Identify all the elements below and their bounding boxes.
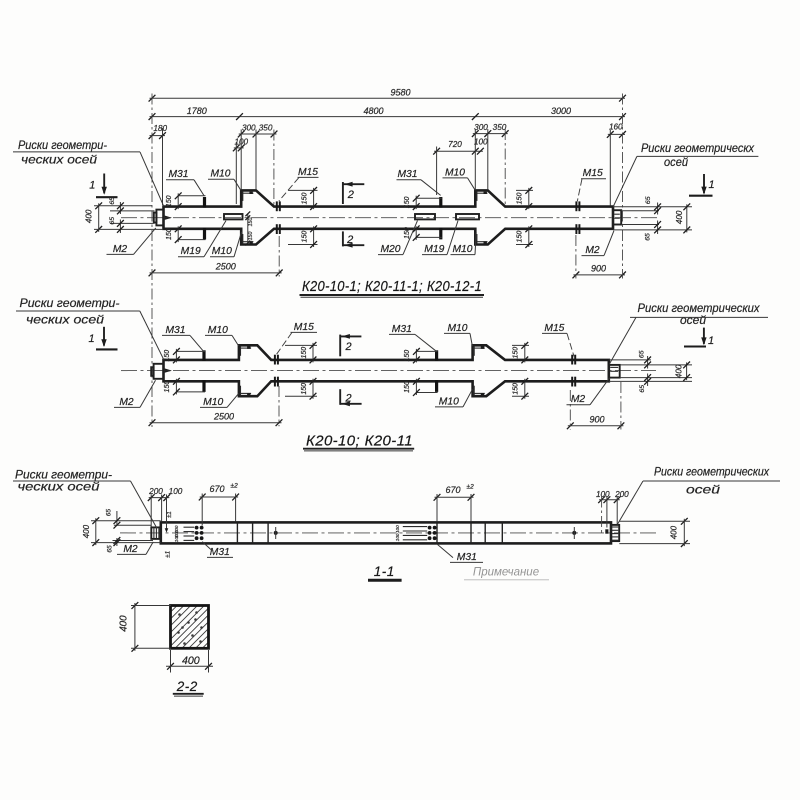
svg-text:2500: 2500 (213, 412, 234, 422)
svg-text:150: 150 (166, 228, 173, 240)
svg-text:Риски геометри-: Риски геометри- (18, 139, 107, 152)
svg-text:65: 65 (109, 197, 116, 205)
svg-text:±1: ±1 (165, 550, 172, 558)
svg-text:М10: М10 (208, 325, 228, 336)
svg-text:150: 150 (404, 381, 411, 393)
svg-text:65: 65 (645, 233, 652, 241)
svg-text:150: 150 (301, 193, 308, 205)
svg-text:осей: осей (680, 314, 707, 327)
svg-text:1: 1 (708, 179, 714, 191)
svg-text:М15: М15 (583, 168, 603, 179)
svg-text:300: 300 (474, 123, 488, 132)
svg-text:М20: М20 (380, 244, 400, 255)
svg-text:400: 400 (119, 615, 130, 632)
svg-text:150: 150 (164, 381, 171, 393)
svg-text:1780: 1780 (187, 106, 207, 116)
svg-text:ческих осей: ческих осей (21, 154, 98, 167)
svg-text:670: 670 (445, 485, 460, 495)
svg-text:2500: 2500 (215, 262, 236, 272)
svg-text:150: 150 (404, 196, 411, 208)
svg-text:100: 100 (596, 490, 610, 499)
svg-text:150: 150 (248, 218, 254, 227)
svg-text:1: 1 (708, 335, 714, 347)
svg-text:М31: М31 (210, 547, 230, 558)
svg-text:150: 150 (301, 231, 308, 243)
svg-text:М31: М31 (168, 169, 188, 180)
svg-text:300: 300 (242, 124, 256, 133)
svg-text:М2: М2 (585, 245, 600, 256)
svg-text:400: 400 (670, 525, 679, 539)
svg-text:М15: М15 (294, 322, 314, 333)
svg-text:2: 2 (345, 393, 352, 405)
svg-text:100: 100 (474, 138, 488, 147)
svg-text:100: 100 (169, 487, 183, 496)
svg-text:осей: осей (686, 484, 721, 497)
svg-text:400: 400 (182, 655, 200, 667)
svg-text:150: 150 (513, 383, 520, 395)
svg-text:150: 150 (301, 383, 308, 395)
svg-text:160: 160 (609, 123, 623, 132)
svg-text:Риски геометрических: Риски геометрических (654, 465, 770, 478)
svg-text:2-2: 2-2 (176, 679, 198, 694)
svg-text:3000: 3000 (551, 106, 571, 116)
svg-text:4800: 4800 (363, 106, 383, 116)
svg-text:М19: М19 (424, 244, 444, 255)
svg-text:2: 2 (345, 341, 352, 353)
svg-text:900: 900 (591, 263, 606, 273)
svg-text:100: 100 (174, 534, 179, 542)
svg-text:М10: М10 (212, 246, 232, 257)
svg-text:М15: М15 (544, 323, 564, 334)
svg-text:М10: М10 (210, 169, 230, 180)
svg-text:±1: ±1 (167, 511, 173, 518)
svg-text:М10: М10 (439, 396, 459, 407)
svg-text:Риски геометри-: Риски геометри- (20, 297, 120, 310)
svg-text:150: 150 (166, 195, 173, 207)
svg-text:150: 150 (301, 347, 308, 359)
svg-text:±2: ±2 (231, 483, 239, 490)
svg-text:400: 400 (675, 210, 684, 224)
svg-text:150: 150 (517, 193, 524, 205)
svg-text:Риски геометрическх: Риски геометрическх (641, 142, 755, 155)
svg-text:осей: осей (664, 156, 689, 169)
svg-text:200: 200 (614, 490, 629, 499)
svg-text:М19: М19 (181, 246, 201, 257)
svg-text:М10: М10 (452, 244, 472, 255)
svg-text:К20-10-1; К20-11-1; К20-12-1: К20-10-1; К20-11-1; К20-12-1 (302, 279, 482, 295)
svg-text:1: 1 (89, 179, 95, 191)
svg-text:М10: М10 (447, 323, 467, 334)
svg-text:ческих осей: ческих осей (18, 480, 101, 493)
svg-text:65: 65 (106, 545, 113, 553)
svg-text:350: 350 (493, 123, 507, 132)
svg-text:150: 150 (248, 232, 254, 241)
svg-text:65: 65 (639, 385, 646, 393)
svg-text:65: 65 (645, 196, 652, 204)
svg-text:400: 400 (675, 364, 684, 378)
svg-text:180: 180 (153, 124, 167, 133)
svg-text:720: 720 (448, 140, 462, 149)
svg-text:2: 2 (346, 234, 353, 246)
svg-text:М2: М2 (123, 544, 138, 555)
svg-text:400: 400 (82, 524, 91, 538)
svg-text:1: 1 (88, 333, 94, 345)
svg-text:100: 100 (395, 525, 400, 533)
svg-text:9580: 9580 (390, 88, 410, 98)
svg-text:Примечание: Примечание (473, 567, 539, 579)
svg-text:М31: М31 (397, 169, 417, 180)
svg-text:670: 670 (209, 484, 224, 494)
svg-text:150: 150 (513, 347, 520, 359)
svg-text:М2: М2 (571, 394, 586, 405)
svg-text:К20-10; К20-11: К20-10; К20-11 (306, 433, 413, 449)
svg-text:65: 65 (638, 350, 645, 358)
svg-text:М2: М2 (119, 397, 134, 408)
svg-text:150: 150 (404, 350, 411, 362)
svg-text:1-1: 1-1 (374, 564, 395, 579)
svg-text:М2: М2 (113, 244, 128, 255)
svg-text:150: 150 (164, 350, 171, 362)
svg-text:65: 65 (105, 509, 112, 517)
svg-text:2: 2 (347, 189, 354, 201)
svg-text:М10: М10 (203, 397, 223, 408)
svg-text:200: 200 (148, 487, 163, 496)
svg-text:М31: М31 (392, 324, 412, 335)
svg-text:М31: М31 (457, 552, 477, 563)
svg-text:900: 900 (589, 414, 604, 424)
svg-text:М31: М31 (165, 325, 185, 336)
svg-text:ческих осей: ческих осей (26, 313, 105, 326)
svg-text:350: 350 (259, 124, 273, 133)
svg-text:М15: М15 (298, 167, 318, 178)
svg-text:±2: ±2 (467, 483, 475, 490)
svg-text:150: 150 (517, 231, 524, 243)
svg-text:400: 400 (85, 209, 94, 223)
svg-text:М10: М10 (445, 167, 465, 178)
svg-text:100: 100 (395, 533, 400, 541)
svg-text:65: 65 (109, 217, 116, 225)
